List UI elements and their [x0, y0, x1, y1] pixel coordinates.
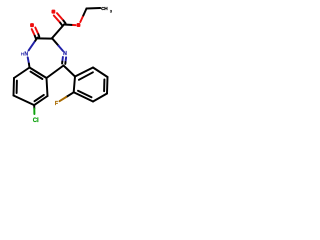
wire bond C12-C13 ethyl [87, 7, 101, 10]
svg-text:Cl: Cl [33, 118, 39, 124]
svg-text:N: N [63, 51, 67, 57]
wire bond C2'-C1' [74, 77, 75, 93]
double bond inner C5a=C9a [31, 72, 43, 79]
double bond N4=C5 [62, 57, 66, 64]
wire bond C9-C8 [13, 78, 16, 96]
wire bond O12-C12 [80, 9, 86, 23]
wire bond C5'-C4' [106, 77, 109, 94]
svg-text:F: F [55, 101, 59, 107]
wire bond C6'-C5' [93, 68, 108, 78]
double bond inner C7=C6 [35, 95, 44, 101]
wire bond C2'-F [60, 92, 74, 101]
wire bond C7-Cl [33, 105, 35, 114]
wire bond C1'-C6' [75, 68, 93, 77]
node O2 lactam oxygen [30, 23, 34, 27]
double bond C11=O11 [54, 13, 66, 26]
svg-text:CH: CH [101, 6, 108, 12]
svg-text:N: N [24, 52, 28, 58]
svg-text:3: 3 [110, 10, 112, 14]
wire bond C9a-C9 [14, 68, 30, 79]
wire bond C8-C7 [14, 96, 35, 106]
double bond inner C8=C9 [16, 81, 18, 93]
wire bond C3-N4 [52, 38, 63, 51]
wire bond C4'-C3' [93, 94, 107, 102]
double bond inner C1'=C6' [79, 72, 93, 80]
wire bond C5-C5a [47, 66, 64, 79]
wire bond C7-C6 [34, 96, 47, 105]
wire bond C3'-C2' [74, 92, 93, 101]
node O12 ester oxygen [77, 23, 81, 27]
wire bond C3-C11 [52, 25, 64, 39]
double bond C2=O2 [32, 28, 40, 39]
wire bond N1-C2 [29, 38, 38, 51]
double bond inner C3'=C2' [78, 91, 92, 97]
wire bond C5-C1' [64, 66, 76, 77]
wire bond C11-O12 [64, 24, 76, 27]
wire bond C2-C3 [38, 37, 53, 39]
node O11 ester carbonyl oxygen [52, 10, 56, 14]
double bond inner C5'=C4' [103, 80, 105, 92]
wire bond N1-C9a [28, 57, 30, 67]
wire bond C6-C5a [47, 78, 48, 96]
wire bond C5a-C9a [30, 68, 47, 79]
